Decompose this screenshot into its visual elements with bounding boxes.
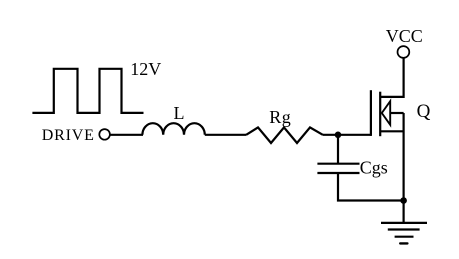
svg-text:DRIVE: DRIVE: [42, 127, 95, 144]
transistor Q source lead: [380, 130, 403, 132]
wire resistor to gate: [323, 134, 371, 136]
wire junction down to capacitor: [337, 135, 339, 164]
svg-text:Cgs: Cgs: [360, 157, 388, 177]
inductor L: [142, 123, 204, 135]
ground: [381, 222, 427, 224]
svg-text:Rg: Rg: [269, 107, 291, 127]
transistor Q drain lead: [380, 58, 403, 97]
svg-text:VCC: VCC: [386, 26, 423, 46]
resistor Rg: [246, 127, 323, 143]
wire source down to ground: [403, 113, 405, 223]
wire capacitor bottom to source rail: [338, 173, 404, 201]
wire inductor to resistor: [205, 134, 246, 136]
transistor Q (N-MOSFET) gate bar: [370, 90, 372, 136]
wire terminal to inductor: [110, 134, 143, 136]
svg-text:L: L: [174, 103, 185, 123]
capacitor Cgs: [317, 163, 359, 165]
junction node source/ground: [400, 197, 407, 204]
12V drive pulse waveform: [32, 69, 143, 113]
node DRIVE input terminal: [99, 129, 110, 140]
transistor Q body arrow: [382, 101, 390, 125]
svg-text:Q: Q: [417, 101, 431, 122]
transistor Q channel bar: [379, 92, 381, 137]
svg-text:12V: 12V: [130, 59, 161, 79]
power VCC terminal: [398, 46, 410, 58]
junction node gate/capacitor: [335, 132, 342, 139]
